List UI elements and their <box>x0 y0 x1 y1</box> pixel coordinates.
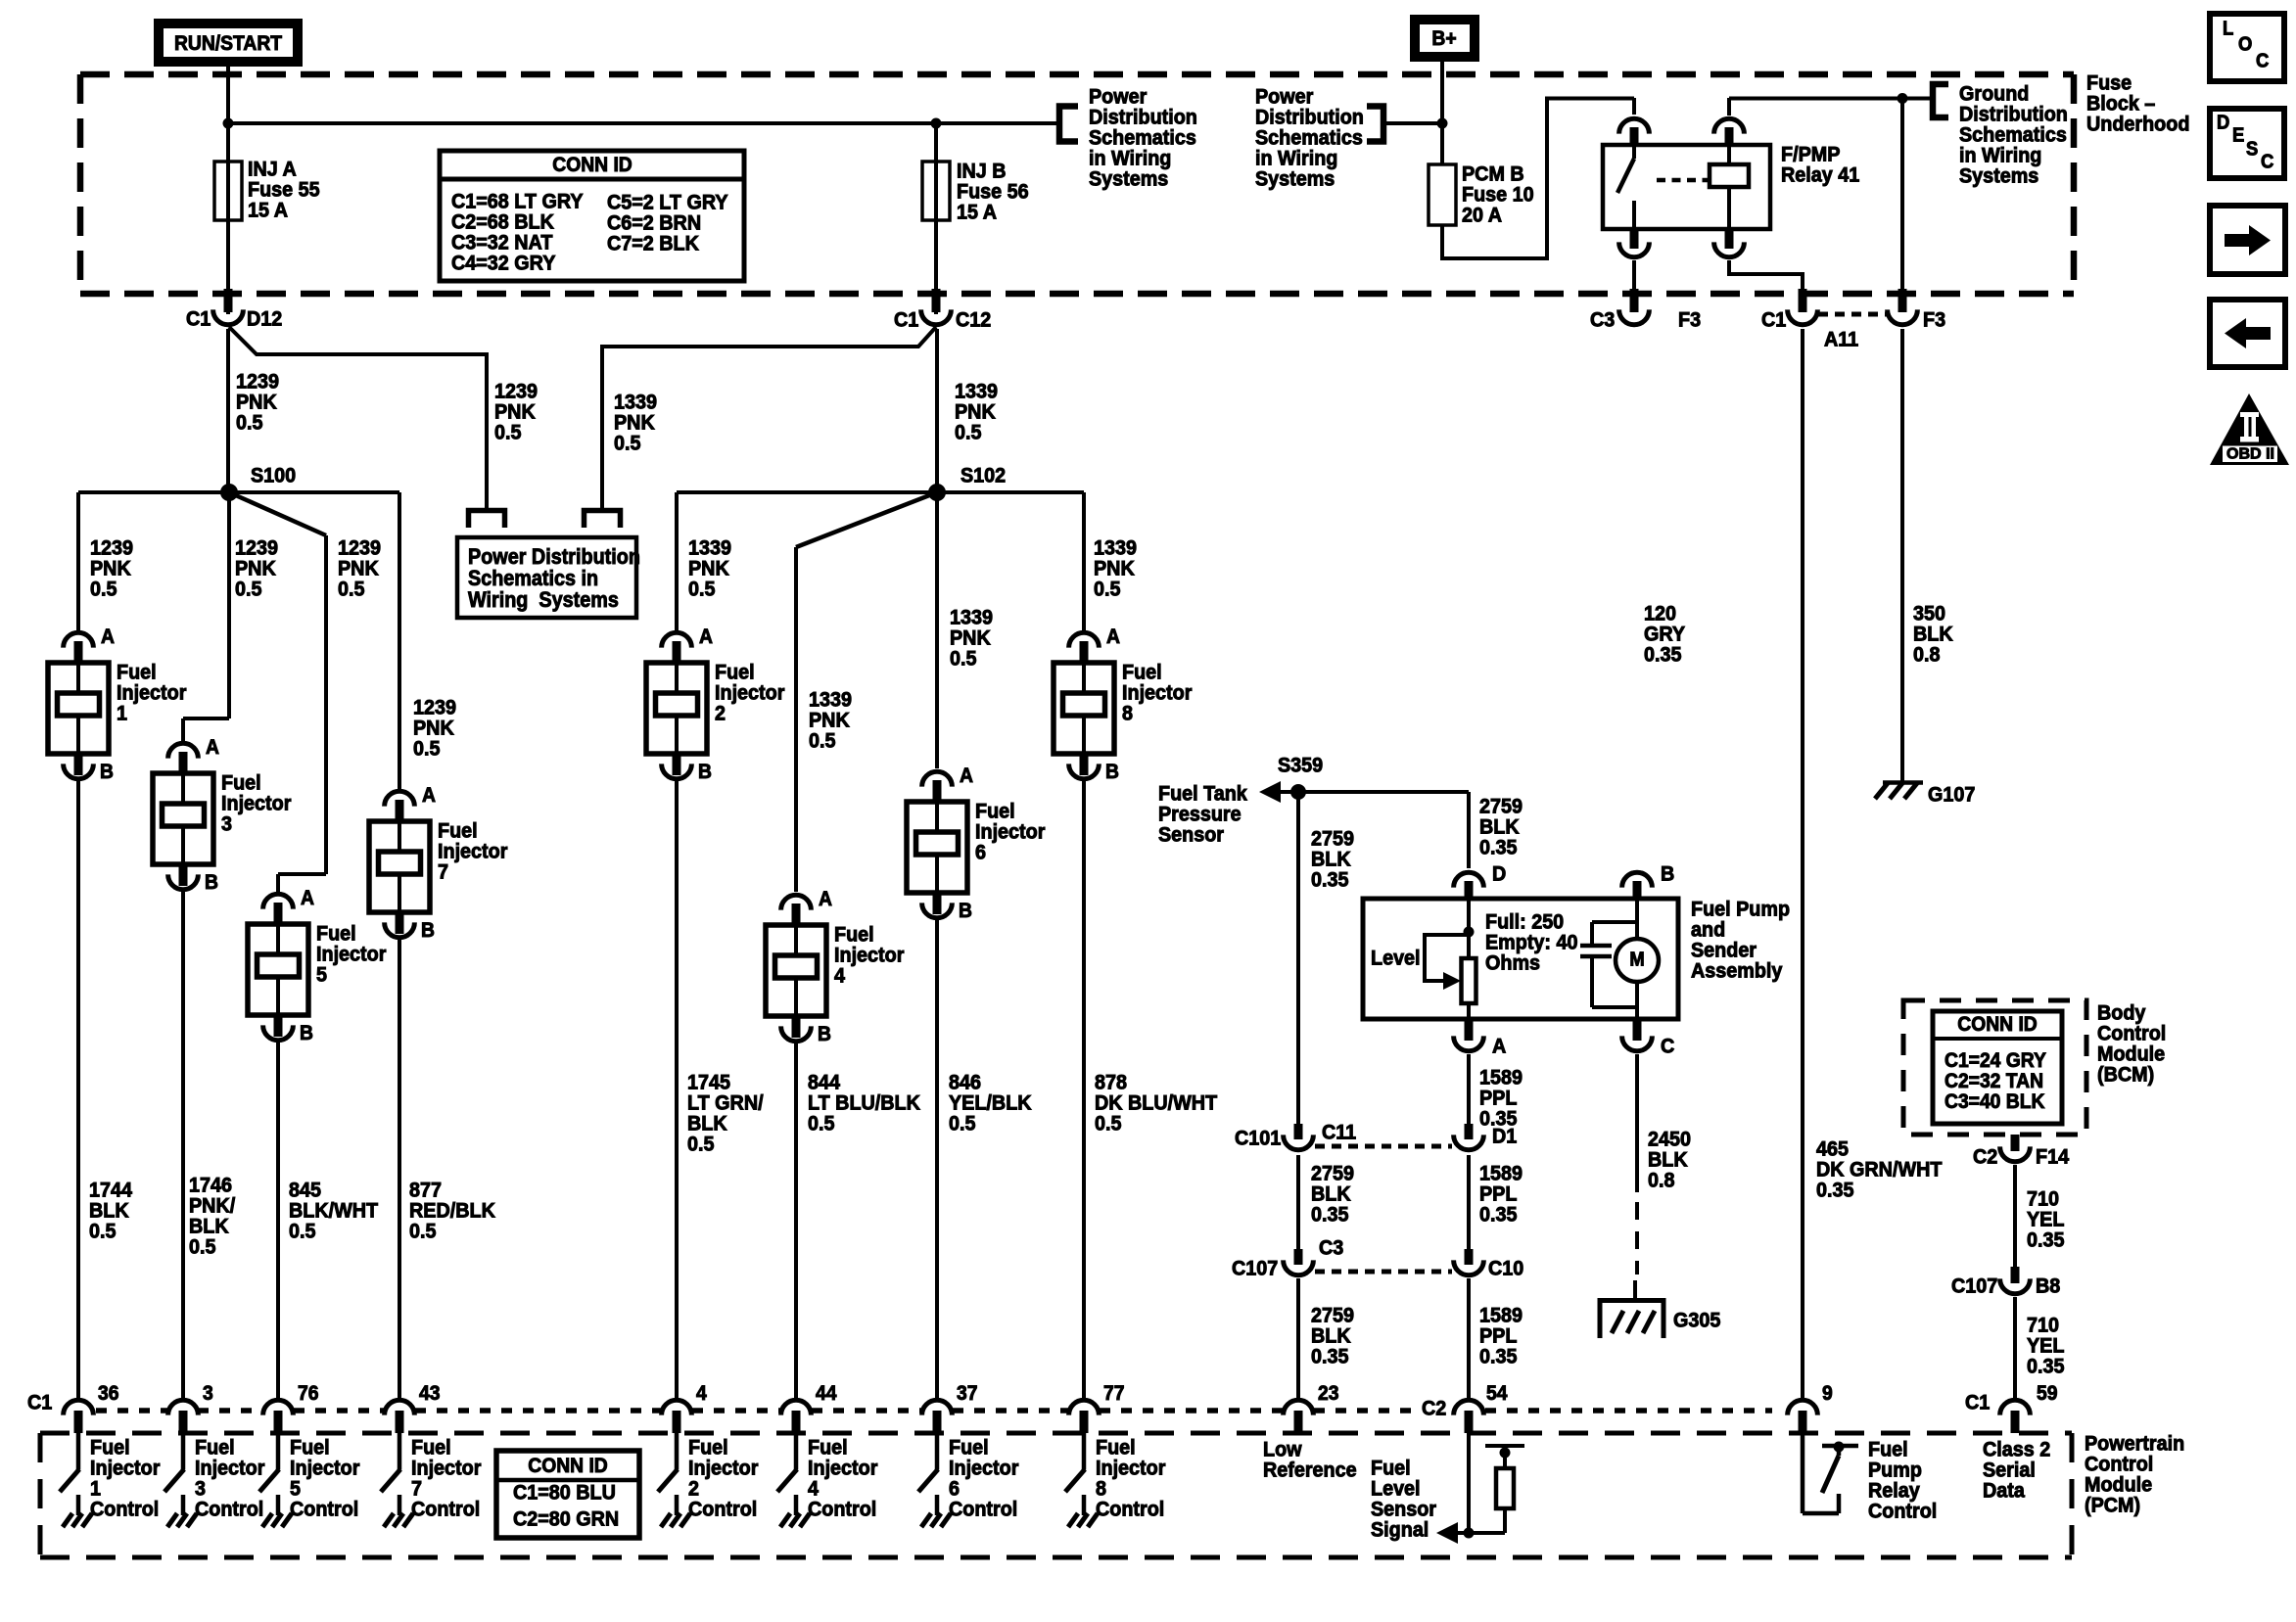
svg-text:B: B <box>205 871 218 894</box>
svg-text:0.35: 0.35 <box>1644 643 1681 667</box>
svg-text:CONN ID: CONN ID <box>1957 1013 2037 1036</box>
svg-text:6: 6 <box>975 841 986 864</box>
svg-text:37: 37 <box>957 1382 977 1405</box>
svg-text:F3: F3 <box>1678 308 1701 332</box>
svg-text:0.5: 0.5 <box>409 1220 436 1243</box>
svg-text:59: 59 <box>2037 1382 2057 1405</box>
svg-text:B: B <box>698 761 712 783</box>
svg-text:M: M <box>1629 950 1644 971</box>
svg-text:B: B <box>818 1023 831 1045</box>
svg-text:CONN ID: CONN ID <box>552 154 632 176</box>
svg-text:C: C <box>2256 51 2269 72</box>
svg-text:B+: B+ <box>1431 27 1456 50</box>
svg-text:0.35: 0.35 <box>1479 1345 1517 1368</box>
svg-text:8: 8 <box>1122 702 1133 725</box>
svg-text:S359: S359 <box>1278 754 1323 777</box>
svg-text:C107: C107 <box>1232 1257 1278 1280</box>
svg-text:A: A <box>206 736 219 759</box>
svg-text:C3: C3 <box>1590 308 1615 332</box>
svg-text:0.5: 0.5 <box>289 1220 315 1243</box>
svg-text:3: 3 <box>203 1382 213 1405</box>
svg-text:4: 4 <box>834 964 845 988</box>
svg-text:C7=2 BLK: C7=2 BLK <box>607 232 699 255</box>
svg-text:7: 7 <box>438 860 448 884</box>
svg-text:Ohms: Ohms <box>1485 951 1540 975</box>
svg-text:1: 1 <box>117 702 127 725</box>
svg-text:CONN ID: CONN ID <box>528 1455 607 1477</box>
svg-text:0.5: 0.5 <box>687 1133 714 1156</box>
svg-text:S: S <box>2246 139 2258 161</box>
svg-text:76: 76 <box>298 1382 318 1405</box>
svg-text:15 A: 15 A <box>957 201 997 224</box>
svg-text:L: L <box>2223 19 2233 40</box>
svg-text:20 A: 20 A <box>1462 204 1502 227</box>
svg-text:F14: F14 <box>2036 1145 2070 1169</box>
svg-text:0.35: 0.35 <box>2027 1228 2064 1252</box>
svg-text:Control: Control <box>1096 1498 1164 1521</box>
svg-text:9: 9 <box>1822 1382 1833 1405</box>
svg-text:0.5: 0.5 <box>1095 1112 1121 1135</box>
svg-text:44: 44 <box>816 1382 837 1405</box>
svg-text:C1: C1 <box>1761 308 1786 332</box>
svg-text:G107: G107 <box>1928 783 1975 807</box>
svg-text:C1: C1 <box>1965 1391 1990 1414</box>
svg-text:D12: D12 <box>247 307 282 331</box>
svg-text:C12: C12 <box>956 308 991 332</box>
svg-text:Level: Level <box>1371 947 1421 970</box>
svg-text:Wiring Systems: Wiring Systems <box>468 588 619 612</box>
svg-text:Control: Control <box>688 1498 757 1521</box>
svg-text:0.5: 0.5 <box>955 421 981 444</box>
svg-text:B: B <box>1661 862 1674 886</box>
svg-text:0.5: 0.5 <box>338 578 364 601</box>
svg-text:Systems: Systems <box>1959 164 2038 188</box>
svg-text:36: 36 <box>98 1382 118 1405</box>
svg-text:D: D <box>1492 862 1506 886</box>
svg-text:C2=32 TAN: C2=32 TAN <box>1945 1070 2043 1092</box>
svg-text:C1: C1 <box>27 1391 52 1414</box>
svg-text:4: 4 <box>696 1382 707 1405</box>
svg-text:Relay 41: Relay 41 <box>1781 163 1859 187</box>
svg-text:A: A <box>1492 1035 1506 1058</box>
svg-text:C1: C1 <box>186 307 211 331</box>
svg-text:Schematics in: Schematics in <box>468 567 598 590</box>
svg-text:Control: Control <box>808 1498 876 1521</box>
svg-text:Control: Control <box>1868 1500 1937 1523</box>
svg-text:0.5: 0.5 <box>494 421 521 444</box>
svg-text:0.35: 0.35 <box>1479 1203 1517 1227</box>
svg-text:0.5: 0.5 <box>949 1112 975 1135</box>
svg-text:0.5: 0.5 <box>688 578 715 601</box>
svg-text:A: A <box>301 887 314 909</box>
svg-text:Underhood: Underhood <box>2086 113 2189 136</box>
svg-text:0.5: 0.5 <box>90 578 117 601</box>
svg-text:Systems: Systems <box>1089 167 1168 191</box>
svg-text:A: A <box>422 784 436 807</box>
svg-text:C3=40 BLK: C3=40 BLK <box>1945 1090 2045 1113</box>
svg-text:C: C <box>1661 1035 1674 1058</box>
svg-text:A: A <box>101 626 115 648</box>
svg-text:0.35: 0.35 <box>1479 836 1517 859</box>
svg-text:C107: C107 <box>1951 1274 1997 1298</box>
svg-text:O: O <box>2238 34 2252 56</box>
svg-text:0.5: 0.5 <box>235 578 261 601</box>
svg-text:0.5: 0.5 <box>89 1220 116 1243</box>
svg-text:Control: Control <box>290 1498 358 1521</box>
svg-text:B: B <box>300 1022 313 1044</box>
svg-text:G305: G305 <box>1673 1309 1720 1332</box>
svg-text:A: A <box>1106 626 1120 648</box>
svg-text:C101: C101 <box>1235 1127 1281 1150</box>
svg-text:C1=80 BLU: C1=80 BLU <box>513 1481 616 1505</box>
svg-text:C: C <box>2261 152 2273 173</box>
svg-text:A: A <box>699 626 713 648</box>
svg-text:A: A <box>960 765 973 787</box>
svg-text:(PCM): (PCM) <box>2085 1494 2140 1517</box>
svg-text:Data: Data <box>1983 1479 2025 1503</box>
svg-text:Control: Control <box>949 1498 1017 1521</box>
svg-text:B: B <box>421 919 435 942</box>
svg-text:0.5: 0.5 <box>413 737 440 761</box>
svg-text:Reference: Reference <box>1263 1459 1357 1482</box>
svg-text:0.8: 0.8 <box>1648 1169 1674 1192</box>
svg-text:C2=80 GRN: C2=80 GRN <box>513 1507 619 1531</box>
svg-text:Control: Control <box>195 1498 263 1521</box>
svg-text:C1=24 GRY: C1=24 GRY <box>1945 1049 2046 1072</box>
svg-text:15 A: 15 A <box>248 199 288 222</box>
svg-text:0.8: 0.8 <box>1913 643 1940 667</box>
svg-text:Signal: Signal <box>1371 1518 1429 1542</box>
svg-text:Assembly: Assembly <box>1691 959 1783 983</box>
svg-text:(BCM): (BCM) <box>2097 1063 2154 1087</box>
svg-text:D: D <box>2217 113 2229 134</box>
svg-text:B: B <box>959 900 972 922</box>
svg-text:77: 77 <box>1103 1382 1124 1405</box>
svg-text:43: 43 <box>419 1382 440 1405</box>
svg-text:0.35: 0.35 <box>1311 1203 1348 1227</box>
svg-text:C4=32 GRY: C4=32 GRY <box>451 252 556 275</box>
svg-text:0.35: 0.35 <box>2027 1355 2064 1378</box>
svg-text:C1: C1 <box>894 308 918 332</box>
svg-text:OBD II: OBD II <box>2226 446 2274 463</box>
svg-text:0.35: 0.35 <box>1311 868 1348 892</box>
svg-text:E: E <box>2232 125 2244 147</box>
svg-text:S100: S100 <box>251 464 296 487</box>
svg-text:Sensor: Sensor <box>1158 823 1224 847</box>
svg-text:C10: C10 <box>1488 1257 1523 1280</box>
svg-text:0.5: 0.5 <box>809 729 835 753</box>
svg-text:54: 54 <box>1486 1382 1508 1405</box>
svg-text:Power Distribution: Power Distribution <box>468 545 640 569</box>
svg-text:0.5: 0.5 <box>236 411 262 435</box>
svg-text:23: 23 <box>1318 1382 1338 1405</box>
svg-text:Control: Control <box>90 1498 159 1521</box>
svg-text:C2: C2 <box>1973 1145 1997 1169</box>
svg-text:A: A <box>819 888 832 910</box>
svg-text:F3: F3 <box>1923 308 1945 332</box>
svg-text:A11: A11 <box>1824 328 1858 351</box>
svg-text:B: B <box>100 761 114 783</box>
svg-text:3: 3 <box>221 812 232 836</box>
svg-text:0.5: 0.5 <box>1094 578 1120 601</box>
svg-text:5: 5 <box>316 963 327 987</box>
svg-text:0.5: 0.5 <box>808 1112 834 1135</box>
svg-text:2: 2 <box>715 702 726 725</box>
svg-text:0.35: 0.35 <box>1311 1345 1348 1368</box>
svg-text:RUN/START: RUN/START <box>174 32 283 55</box>
svg-text:0.5: 0.5 <box>950 647 976 671</box>
svg-text:C2: C2 <box>1422 1397 1446 1420</box>
svg-text:B8: B8 <box>2036 1274 2060 1298</box>
svg-text:0.5: 0.5 <box>189 1235 215 1259</box>
svg-text:D1: D1 <box>1492 1125 1517 1148</box>
svg-text:0.35: 0.35 <box>1816 1179 1853 1202</box>
svg-text:Control: Control <box>411 1498 480 1521</box>
svg-text:B: B <box>1105 761 1119 783</box>
svg-text:C11: C11 <box>1322 1121 1356 1144</box>
svg-text:S102: S102 <box>961 464 1006 487</box>
svg-text:C3: C3 <box>1319 1236 1343 1260</box>
svg-text:0.5: 0.5 <box>614 432 640 455</box>
svg-text:Systems: Systems <box>1255 167 1335 191</box>
